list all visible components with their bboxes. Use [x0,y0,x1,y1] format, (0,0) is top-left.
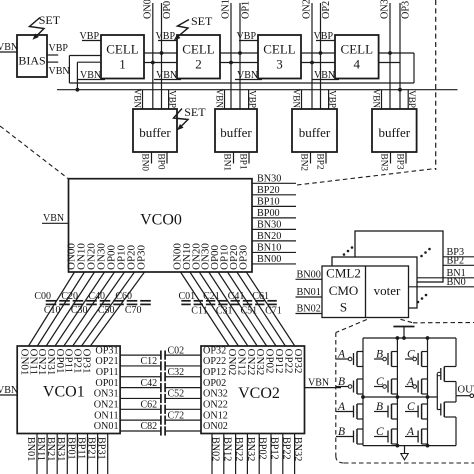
capacitor C62 [160,405,162,414]
svg-text:C42: C42 [141,378,158,389]
wire VBN of buffer 1 [224,90,226,109]
junction ON0 [151,61,155,65]
svg-text:CML2: CML2 [326,266,361,281]
capacitor C02 [160,351,162,360]
wire ON21 to cap [120,408,161,410]
wire VBP stub [47,54,58,56]
vco block VCO1 [17,346,120,434]
wire branch col2 [396,338,398,446]
capacitor C01 [181,300,190,302]
wire BN12 [223,434,225,474]
wire BN01 [36,434,38,474]
buffer block 0 [133,109,177,152]
wire BN32 [246,434,248,474]
capacitor C82 [160,426,162,435]
wire OP11 to cap [120,376,161,378]
capacitor C61 [255,300,264,302]
svg-text:VBN: VBN [291,89,301,109]
wire BP12 [270,434,272,474]
port OUT circle [470,394,474,398]
capacitor C42 [160,383,162,392]
svg-text:BN02: BN02 [297,304,321,315]
junction vdd-stem [402,336,406,340]
wire VBP of buffer 1 [248,90,250,109]
ellipsis dots upper-right [420,255,423,258]
wire cap to ON32 [165,397,201,399]
svg-text:BN01: BN01 [297,287,321,298]
svg-text:BN2: BN2 [299,154,309,172]
wire VBN vco0 [42,222,69,224]
svg-text:BN20: BN20 [257,231,281,242]
svg-text:A: A [406,376,415,388]
wire cell-to-cell lower [301,62,335,64]
wire ON3 [389,3,391,109]
wire fan-left 5 [73,272,125,346]
dashed callout voter-left [336,320,367,333]
svg-text:C50: C50 [98,305,115,316]
wire OP3 [399,3,401,109]
svg-text:C72: C72 [168,410,185,421]
svg-text:OP11: OP11 [96,367,119,378]
dashed callout left [0,126,68,179]
transistor N14 gate B [356,429,358,444]
svg-text:VCO1: VCO1 [43,384,85,401]
wire ON2 [311,3,313,109]
wire VBP of buffer 2 [328,90,330,109]
wire BP2 stub [325,152,327,164]
svg-text:BN22: BN22 [233,437,244,461]
wire mid node rail [363,396,437,398]
voter card back [355,231,443,282]
inverter U-out [436,374,438,410]
voter card mid [332,257,417,308]
wire BN30 [252,228,296,230]
voter card front [322,266,409,318]
dashed callout vertical [435,0,437,170]
svg-text:C21: C21 [203,291,220,302]
svg-text:C: C [376,426,384,438]
svg-text:A: A [337,401,346,413]
svg-text:VBN: VBN [0,42,18,53]
svg-text:B: B [338,426,345,438]
transistor P22 gate C [391,379,393,394]
capacitor C50 [113,300,124,302]
capacitor C10 [59,300,70,302]
svg-text:BP22: BP22 [280,437,291,460]
svg-text:VBP: VBP [49,43,69,54]
wire OP01 to cap [120,387,161,389]
svg-text:BP02: BP02 [257,437,268,460]
svg-text:SET: SET [39,13,61,27]
svg-text:buffer: buffer [299,125,331,140]
wire BP11 [87,434,89,474]
svg-text:voter: voter [374,283,401,298]
capacitor C31 [218,300,227,302]
svg-text:C11: C11 [191,306,207,317]
wire BN02 [211,434,213,474]
wire fan-right 1 [190,272,239,346]
junction ON1 [229,61,233,65]
wire fan-left 3 [55,272,104,346]
cell block CELL 3 [258,35,301,79]
svg-text:BN01: BN01 [25,437,36,461]
svg-text:OP21: OP21 [95,356,118,367]
svg-text:C: C [407,349,415,361]
svg-text:C01: C01 [179,291,196,302]
vco block VCO0 [69,179,253,272]
svg-text:BP20: BP20 [257,185,280,196]
svg-text:C20: C20 [61,291,78,302]
svg-text:VBN: VBN [43,213,64,224]
svg-text:BP3: BP3 [395,154,405,170]
wire VDD stem [403,327,405,339]
svg-text:OP32: OP32 [203,345,226,356]
svg-text:OP3: OP3 [401,1,412,19]
svg-text:B: B [376,349,383,361]
svg-text:BP12: BP12 [269,437,280,460]
svg-text:VBN: VBN [132,89,142,109]
svg-text:buffer: buffer [220,125,252,140]
wire fan-left 6 [82,272,135,346]
junction mid-col2 [396,395,400,399]
svg-text:CELL: CELL [106,42,139,57]
svg-text:C02: C02 [168,345,185,356]
svg-text:OP22: OP22 [203,356,226,367]
svg-text:C: C [376,376,384,388]
wire BP01 [76,434,78,474]
transistor N34 gate A [421,429,423,444]
svg-text:VBN: VBN [214,89,224,109]
wire OUT [456,395,470,397]
svg-text:C62: C62 [141,400,158,411]
svg-text:OUT: OUT [458,385,474,396]
wire fan-left 2 [46,272,94,346]
wire BN00 [252,263,296,265]
svg-text:BN30: BN30 [257,174,281,185]
wire OP31 to cap [120,354,161,356]
wire fan-right 2 [199,272,248,346]
svg-text:C41: C41 [228,291,245,302]
SET arrow into CELL2 [178,20,190,37]
wire fan-right 3 [209,272,258,346]
dashed box corner [336,456,344,463]
svg-text:C12: C12 [141,356,158,367]
svg-text:ON02: ON02 [203,421,228,432]
svg-text:C60: C60 [115,291,132,302]
wire BN2 stub [310,152,312,164]
svg-text:BN3: BN3 [379,154,389,172]
transistor P11 gate A [356,352,358,367]
svg-text:A: A [406,426,415,438]
capacitor C11 [194,300,203,302]
junction gnd-col3 [426,444,430,448]
wire riser to R2 [76,62,78,89]
wire rail R1 [69,82,414,84]
wire BP31 [107,434,109,474]
wire BN3 stub [390,152,392,164]
wire VBP of CELL 3 [239,40,258,42]
junction OP1 [238,51,242,55]
cell block CELL 4 [335,35,379,79]
svg-text:ON32: ON32 [203,389,228,400]
svg-text:ON3: ON3 [380,0,391,19]
wire cell-to-cell upper [144,52,177,54]
svg-text:C: C [407,401,415,413]
wire CELL4 upper output [379,52,414,54]
svg-text:BN32: BN32 [292,437,303,461]
svg-text:OP12: OP12 [203,367,226,378]
wire fan-right 6 [237,272,286,346]
wire BN22 [235,434,237,474]
wire cap to ON22 [165,408,201,410]
wire feedback drop [413,53,415,83]
capacitor C41 [231,300,240,302]
capacitor C32 [160,372,162,381]
wire ON1 [230,3,232,109]
svg-text:BN0: BN0 [140,154,150,172]
junction mid-col1 [361,395,365,399]
svg-text:BP21: BP21 [86,437,97,460]
wire BP2 voter out [443,264,474,266]
dashed box top edge [413,322,474,324]
wire BN31 [66,434,68,474]
svg-text:ON1: ON1 [221,0,232,19]
wire ON0 [152,3,154,109]
svg-text:OP1: OP1 [241,1,252,19]
divider CML2CMOS/voter [365,266,367,318]
wire BN11 [46,434,48,474]
svg-text:C31: C31 [216,306,233,317]
wire fan-right 5 [228,272,277,346]
capacitor C20 [73,300,84,302]
svg-text:ON31: ON31 [94,389,119,400]
wire BN00 voter in [296,278,323,280]
wire fan-left 0 [29,272,75,346]
svg-text:C40: C40 [88,291,105,302]
svg-text:BIAS: BIAS [18,54,45,68]
svg-text:BN12: BN12 [221,437,232,461]
svg-text:VCO2: VCO2 [238,385,280,402]
svg-text:C32: C32 [168,367,185,378]
wire BP10 [252,205,296,207]
wire BP3 stub [405,152,407,164]
power VDD bar [393,326,414,328]
svg-text:OP0: OP0 [162,1,173,19]
wire OP2 [320,3,322,109]
wire fan-left 7 [90,272,144,346]
svg-text:CELL: CELL [182,42,215,57]
svg-text:BP31: BP31 [96,437,107,460]
svg-text:VBN: VBN [0,385,18,396]
wire CELL1 lower input [77,61,101,63]
svg-text:B: B [338,376,345,388]
svg-text:A: A [337,349,346,361]
wire fan-right 7 [246,272,294,346]
ellipsis dots upper-left [343,253,346,256]
wire VBN of CELL 3 [235,79,262,81]
capacitor C00 [46,300,57,302]
transistor N24 gate C [391,429,393,444]
junction ON3 out [388,51,392,55]
svg-text:C82: C82 [141,421,158,432]
dashed box left edge [335,333,337,457]
wire branch col3 [427,338,429,446]
wire VBP of buffer 3 [407,90,409,109]
svg-text:C70: C70 [125,305,142,316]
svg-text:BN00: BN00 [257,254,281,265]
capacitor C60 [127,300,138,302]
svg-text:4: 4 [354,57,361,72]
svg-text:ON11: ON11 [94,410,119,421]
svg-text:C71: C71 [265,306,282,317]
capacitor C12 [160,361,162,370]
wire OP21 to cap [120,365,161,367]
wire fan-left 4 [64,272,115,346]
svg-text:BN02: BN02 [210,437,221,461]
wire VBN vco2 [305,387,342,389]
svg-text:BP11: BP11 [75,437,86,459]
wire ON31 to cap [120,397,161,399]
wire CELL1 upper input [69,55,101,57]
wire fan-right 4 [218,272,267,346]
wire cap to OP12 [165,376,201,378]
dashed box bottom edge [344,462,474,464]
wire BN21 [56,434,58,474]
wire cap to OP32 [165,354,201,356]
wire VBP of CELL 1 [82,40,101,42]
svg-text:OP02: OP02 [203,378,226,389]
wire cap to OP22 [165,365,201,367]
wire rail R2 [57,89,458,91]
svg-text:OP30: OP30 [237,244,249,270]
wire BP22 [282,434,284,474]
capacitor C21 [206,300,215,302]
wire BN20 [252,240,296,242]
svg-text:BN31: BN31 [55,437,66,461]
wire cell-to-cell lower [220,62,258,64]
ground symbol [404,446,406,454]
svg-text:CELL: CELL [341,42,374,57]
wire BP1 stub [248,152,250,164]
svg-text:ON12: ON12 [203,410,228,421]
wire cap to ON12 [165,419,201,421]
junction OP0 [160,51,164,55]
buffer block 3 [372,109,417,152]
svg-text:C00: C00 [34,291,51,302]
buffer block 1 [215,109,257,152]
junction riser-R2 [76,88,80,92]
wire VBP of CELL 4 [316,40,335,42]
wire cell-to-cell upper [301,52,335,54]
svg-text:OP01: OP01 [95,378,118,389]
dashed callout voter-right [401,319,414,323]
capacitor C71 [267,300,276,302]
buffer block 2 [292,109,337,152]
wire ON01 to cap [120,430,161,432]
svg-text:VBN: VBN [308,378,329,389]
junction OP2 [319,51,323,55]
svg-text:BP1: BP1 [238,154,248,170]
svg-text:SET: SET [184,105,206,119]
wire BN1 voter out [417,277,474,279]
svg-text:OP32: OP32 [292,349,304,374]
svg-text:OP2: OP2 [321,1,332,19]
wire OP0 [161,3,163,109]
svg-text:buffer: buffer [139,125,171,140]
svg-text:1: 1 [119,57,126,72]
bias block B1 [17,35,47,77]
junction vdd-col2 [396,336,400,340]
wire fan-left 1 [37,272,84,346]
svg-text:OP30: OP30 [136,244,148,270]
svg-text:3: 3 [276,57,283,72]
svg-text:B: B [376,401,383,413]
transistor P31 gate C [421,352,423,367]
wire BP0 stub [166,152,168,164]
svg-text:OP31: OP31 [80,349,92,374]
wire cap to ON02 [165,430,201,432]
wire VBN of CELL 2 [154,79,181,81]
junction vdd-col3 [426,336,430,340]
wire VBN stub [47,61,58,63]
svg-text:S: S [340,300,347,315]
wire BP3 voter out [443,256,474,258]
svg-text:ON01: ON01 [94,421,119,432]
svg-text:CELL: CELL [263,42,296,57]
wire branch col1 [362,338,364,446]
wire cell-to-cell upper [220,52,258,54]
svg-text:VCO0: VCO0 [140,212,182,229]
svg-text:SET: SET [191,14,213,28]
svg-text:BP00: BP00 [257,208,280,219]
wire VBN vco1 [0,394,17,396]
svg-text:buffer: buffer [379,125,411,140]
wire BN30 [252,182,296,184]
capacitor C30 [86,300,97,302]
wire VBN of buffer 0 [142,90,144,109]
svg-text:VBN: VBN [371,89,381,109]
wire VBN to BIAS [0,51,17,53]
wire BP00 [252,217,296,219]
transistor N23 gate B [391,404,393,419]
wire VBN of buffer 2 [301,90,303,109]
SET arrow into BIAS [30,18,45,37]
svg-text:BN32: BN32 [245,437,256,461]
svg-text:ON0: ON0 [142,0,153,19]
svg-text:C10: C10 [44,305,61,316]
wire VBP of CELL 2 [158,40,177,42]
wire CELL4 lower output [379,62,400,64]
svg-text:BN21: BN21 [45,437,56,461]
wire BP02 [258,434,260,474]
svg-text:BP10: BP10 [257,197,280,208]
svg-text:C30: C30 [71,305,88,316]
wire BP21 [97,434,99,474]
wire BN01 voter in [296,296,323,298]
wire BN0 stub [151,152,153,164]
wire BN0 voter out [409,286,474,288]
svg-text:ON22: ON22 [203,400,228,411]
junction ON2 [310,61,314,65]
transistor P21 gate B [391,352,393,367]
wire cell-to-cell lower [144,62,177,64]
wire VBP of buffer 0 [168,90,170,109]
svg-text:ON21: ON21 [94,400,119,411]
wire fan-right 0 [181,272,230,346]
svg-text:BP2: BP2 [315,154,325,170]
wire ground rail [363,445,456,447]
wire BN10 [252,251,296,253]
